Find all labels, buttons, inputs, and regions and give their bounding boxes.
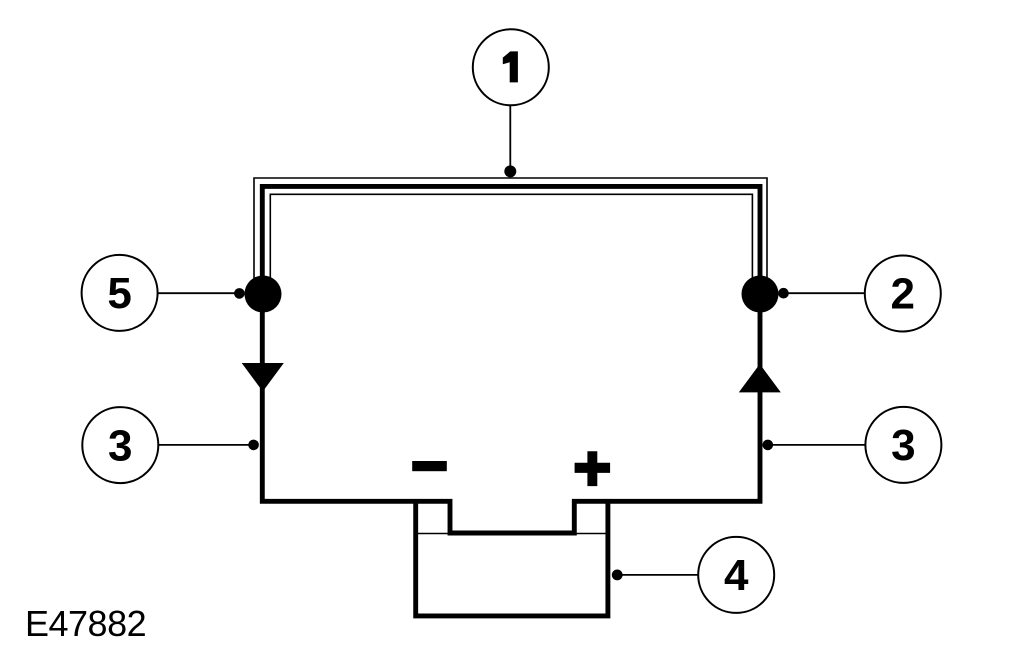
leader wire callout 3 right [768, 444, 865, 446]
callout circle 4 [698, 537, 774, 613]
leader wire callout 5 [158, 292, 240, 294]
leader dot callout 2 [778, 288, 789, 299]
svg-text:3: 3 [891, 421, 915, 470]
leader wire callout 4 [617, 574, 698, 576]
svg-text:5: 5 [107, 269, 131, 318]
svg-text:3: 3 [108, 421, 132, 470]
callout circle 3 left [82, 407, 158, 483]
svg-text:4: 4 [724, 551, 749, 600]
leader dot callout 3 right [763, 440, 774, 451]
arrow up on right wire [739, 364, 781, 392]
leader wire callout 1 [509, 105, 511, 171]
battery minus terminal symbol [412, 461, 447, 471]
junction node right [742, 276, 779, 313]
wire: main lower loop with battery terminal dip [262, 294, 760, 533]
junction node left [245, 276, 282, 313]
wire: thick top bus [262, 186, 760, 294]
battery B1 thin internal line [416, 533, 608, 535]
arrow down on left wire [242, 363, 284, 392]
wire: outer thin line of triple bus [254, 178, 767, 290]
callout circle 1 [473, 29, 549, 105]
leader dot callout 5 [234, 288, 245, 299]
leader dot callout 1 [504, 165, 516, 177]
svg-text:E47882: E47882 [25, 603, 146, 644]
wire: inner thin line of triple bus [270, 194, 752, 290]
leader wire callout 3 left [159, 444, 254, 446]
leader dot callout 3 left [248, 440, 259, 451]
leader dot callout 4 [612, 570, 623, 581]
svg-text:2: 2 [891, 270, 915, 319]
callout circle 5 [82, 255, 158, 331]
battery plus terminal symbol [575, 451, 611, 486]
leader wire callout 2 [784, 292, 865, 294]
callout circle 3 right [865, 407, 941, 483]
callout circle 2 [865, 256, 941, 332]
battery B1 case outline [416, 500, 608, 616]
